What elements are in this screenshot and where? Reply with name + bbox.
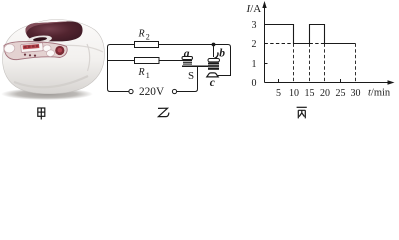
svg-text:30: 30 [351, 88, 361, 99]
svg-text:3: 3 [252, 20, 257, 31]
circuit schematic (乙) [108, 45, 232, 92]
dashed vertical t=30 [355, 44, 357, 83]
white button mid top [42, 44, 51, 52]
wire bottom right of source and S vertical [177, 66, 198, 91]
svg-text:R: R [138, 29, 145, 40]
contact a magnet stack [183, 60, 192, 65]
x axis arrowhead [388, 80, 395, 84]
svg-text:a: a [184, 48, 190, 60]
svg-text:15: 15 [305, 88, 315, 99]
x axis [265, 82, 394, 84]
svg-text:2: 2 [146, 33, 150, 42]
terminal right of 220V [172, 89, 176, 93]
svg-text:c: c [210, 77, 215, 89]
x tick t=25 [340, 79, 342, 83]
contact b lever [214, 53, 218, 59]
lid plate left light edge [25, 21, 68, 33]
lid seam [63, 45, 103, 52]
svg-text:2: 2 [252, 39, 257, 50]
contact c dome [207, 73, 218, 77]
contact a pill [182, 57, 193, 60]
y axis arrowhead [262, 1, 266, 8]
dashed vertical t=20 [324, 44, 326, 83]
rice cooker photo (甲) [1, 20, 105, 120]
svg-text:0: 0 [252, 78, 257, 89]
dashed vertical t=15 [309, 44, 311, 83]
wire contact bar a-b [182, 65, 210, 67]
label 甲 [38, 108, 45, 120]
contact b pill [208, 59, 220, 62]
svg-text:10: 10 [289, 88, 299, 99]
y tick I=2 [265, 43, 268, 45]
resistor R2 [135, 42, 159, 48]
svg-text:t/min: t/min [368, 88, 391, 99]
svg-text:5: 5 [276, 88, 281, 99]
y axis [264, 3, 266, 83]
dark red button [55, 46, 64, 55]
graph (丙) [262, 1, 394, 85]
terminal left of 220V [129, 89, 133, 93]
side handle crease [87, 44, 90, 71]
white button mid bottom [46, 49, 55, 57]
lid burgundy plate [25, 21, 82, 41]
current curve [265, 25, 356, 44]
y tick I=3 [265, 24, 268, 26]
svg-text:220V: 220V [139, 86, 165, 98]
svg-text:1: 1 [146, 71, 150, 80]
wire c to right rail [218, 75, 232, 77]
junction dot [212, 43, 216, 47]
lid handle recess [27, 34, 53, 45]
svg-text:R: R [138, 67, 145, 78]
svg-text:25: 25 [336, 88, 346, 99]
wire b drop from junction [213, 45, 215, 58]
white body [2, 20, 104, 94]
x tick t=5 [278, 79, 280, 83]
wire middle (R1 branch) [108, 60, 184, 62]
y tick I=1 [265, 63, 268, 65]
body bottom inner shadow [14, 76, 88, 87]
white button panel left [4, 43, 16, 54]
svg-text:1: 1 [252, 59, 257, 70]
svg-text:I/A: I/A [246, 3, 262, 15]
dashed guide I=2 [265, 43, 325, 45]
dashed vertical t=10 [293, 44, 295, 83]
base shadow [1, 88, 93, 100]
label 乙 [158, 108, 169, 116]
lid handle slot [33, 37, 47, 42]
contact b magnet stack [208, 63, 219, 70]
label 丙 [297, 107, 307, 118]
display window [21, 43, 44, 53]
svg-text:20: 20 [320, 88, 330, 99]
control panel band [4, 41, 67, 59]
svg-text:S: S [188, 70, 194, 82]
wire outer loop (left rail, top, right rail, bottom-left) [108, 45, 231, 92]
svg-text:b: b [219, 47, 225, 59]
resistor R1 [135, 58, 160, 64]
small dots under display [24, 54, 26, 56]
